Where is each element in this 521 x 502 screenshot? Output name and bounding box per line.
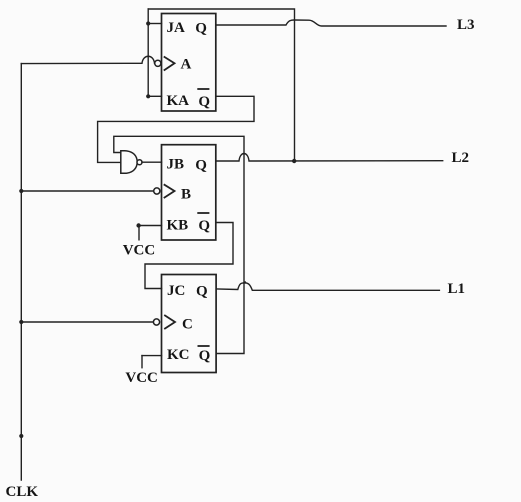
- clock bubble U1: [155, 60, 161, 66]
- clock bubble U3: [153, 319, 159, 325]
- node QB feedback junction: [292, 159, 296, 163]
- svg-text:L1: L1: [448, 281, 466, 297]
- flip-flop U2 (B): [162, 145, 216, 240]
- wire JA-KA tie vertical: [147, 9, 149, 96]
- wire clock B: [21, 190, 153, 192]
- node JA junction: [146, 21, 150, 25]
- VCC tie for KC: [125, 356, 161, 386]
- wire JA stub: [148, 23, 161, 25]
- svg-text:Q: Q: [199, 348, 211, 364]
- node KA junction: [146, 94, 150, 98]
- wire QbarA to NAND input: [98, 96, 254, 162]
- clock bubble U2: [154, 188, 160, 194]
- svg-text:KC: KC: [167, 347, 190, 363]
- label L2: [452, 150, 470, 166]
- svg-text:C: C: [182, 317, 193, 333]
- flip-flop U1 (A): [162, 14, 216, 112]
- svg-text:B: B: [181, 187, 191, 203]
- node clock B junction: [19, 189, 23, 193]
- wire QB feedback to JA-KA (top run and right vertical): [148, 9, 294, 161]
- node clock C junction: [19, 320, 23, 324]
- label L3: [457, 17, 475, 33]
- svg-text:KB: KB: [167, 218, 189, 234]
- wire NAND output to JB: [142, 161, 162, 163]
- node on CLK line: [19, 434, 23, 438]
- svg-text:JC: JC: [167, 283, 185, 299]
- svg-text:VCC: VCC: [123, 243, 156, 259]
- wire QbarB to JC: [145, 223, 233, 289]
- wire clock A (with hop over JA-KA tie): [21, 56, 154, 63]
- wire QB to L2 (hop over x=244 vertical): [216, 154, 443, 162]
- svg-text:JA: JA: [167, 20, 186, 36]
- svg-text:Q: Q: [195, 158, 207, 174]
- wire CLK vertical: [20, 64, 22, 480]
- svg-text:KA: KA: [167, 93, 190, 109]
- NAND gate U4: [121, 151, 142, 174]
- svg-text:Q: Q: [198, 94, 210, 110]
- svg-text:A: A: [181, 57, 192, 73]
- wire KA stub: [148, 95, 161, 97]
- label CLK: [6, 484, 39, 500]
- wire QA to L3 (hop over feedback vertical): [216, 20, 446, 26]
- label L1: [448, 281, 466, 297]
- svg-text:L3: L3: [457, 17, 475, 33]
- svg-text:JB: JB: [167, 157, 185, 173]
- svg-text:CLK: CLK: [6, 484, 39, 500]
- VCC tie for KB: [123, 223, 162, 258]
- svg-text:Q: Q: [198, 218, 210, 234]
- svg-text:VCC: VCC: [125, 370, 157, 386]
- wire QC to L1 (hop over x=244 vertical): [216, 281, 439, 290]
- wire clock C: [21, 321, 153, 323]
- wire QbarC to NAND input (long vertical x=244): [114, 136, 244, 353]
- flip-flop U3 (C): [162, 275, 217, 373]
- svg-text:L2: L2: [452, 150, 470, 166]
- svg-text:Q: Q: [195, 21, 207, 37]
- svg-text:Q: Q: [196, 284, 208, 300]
